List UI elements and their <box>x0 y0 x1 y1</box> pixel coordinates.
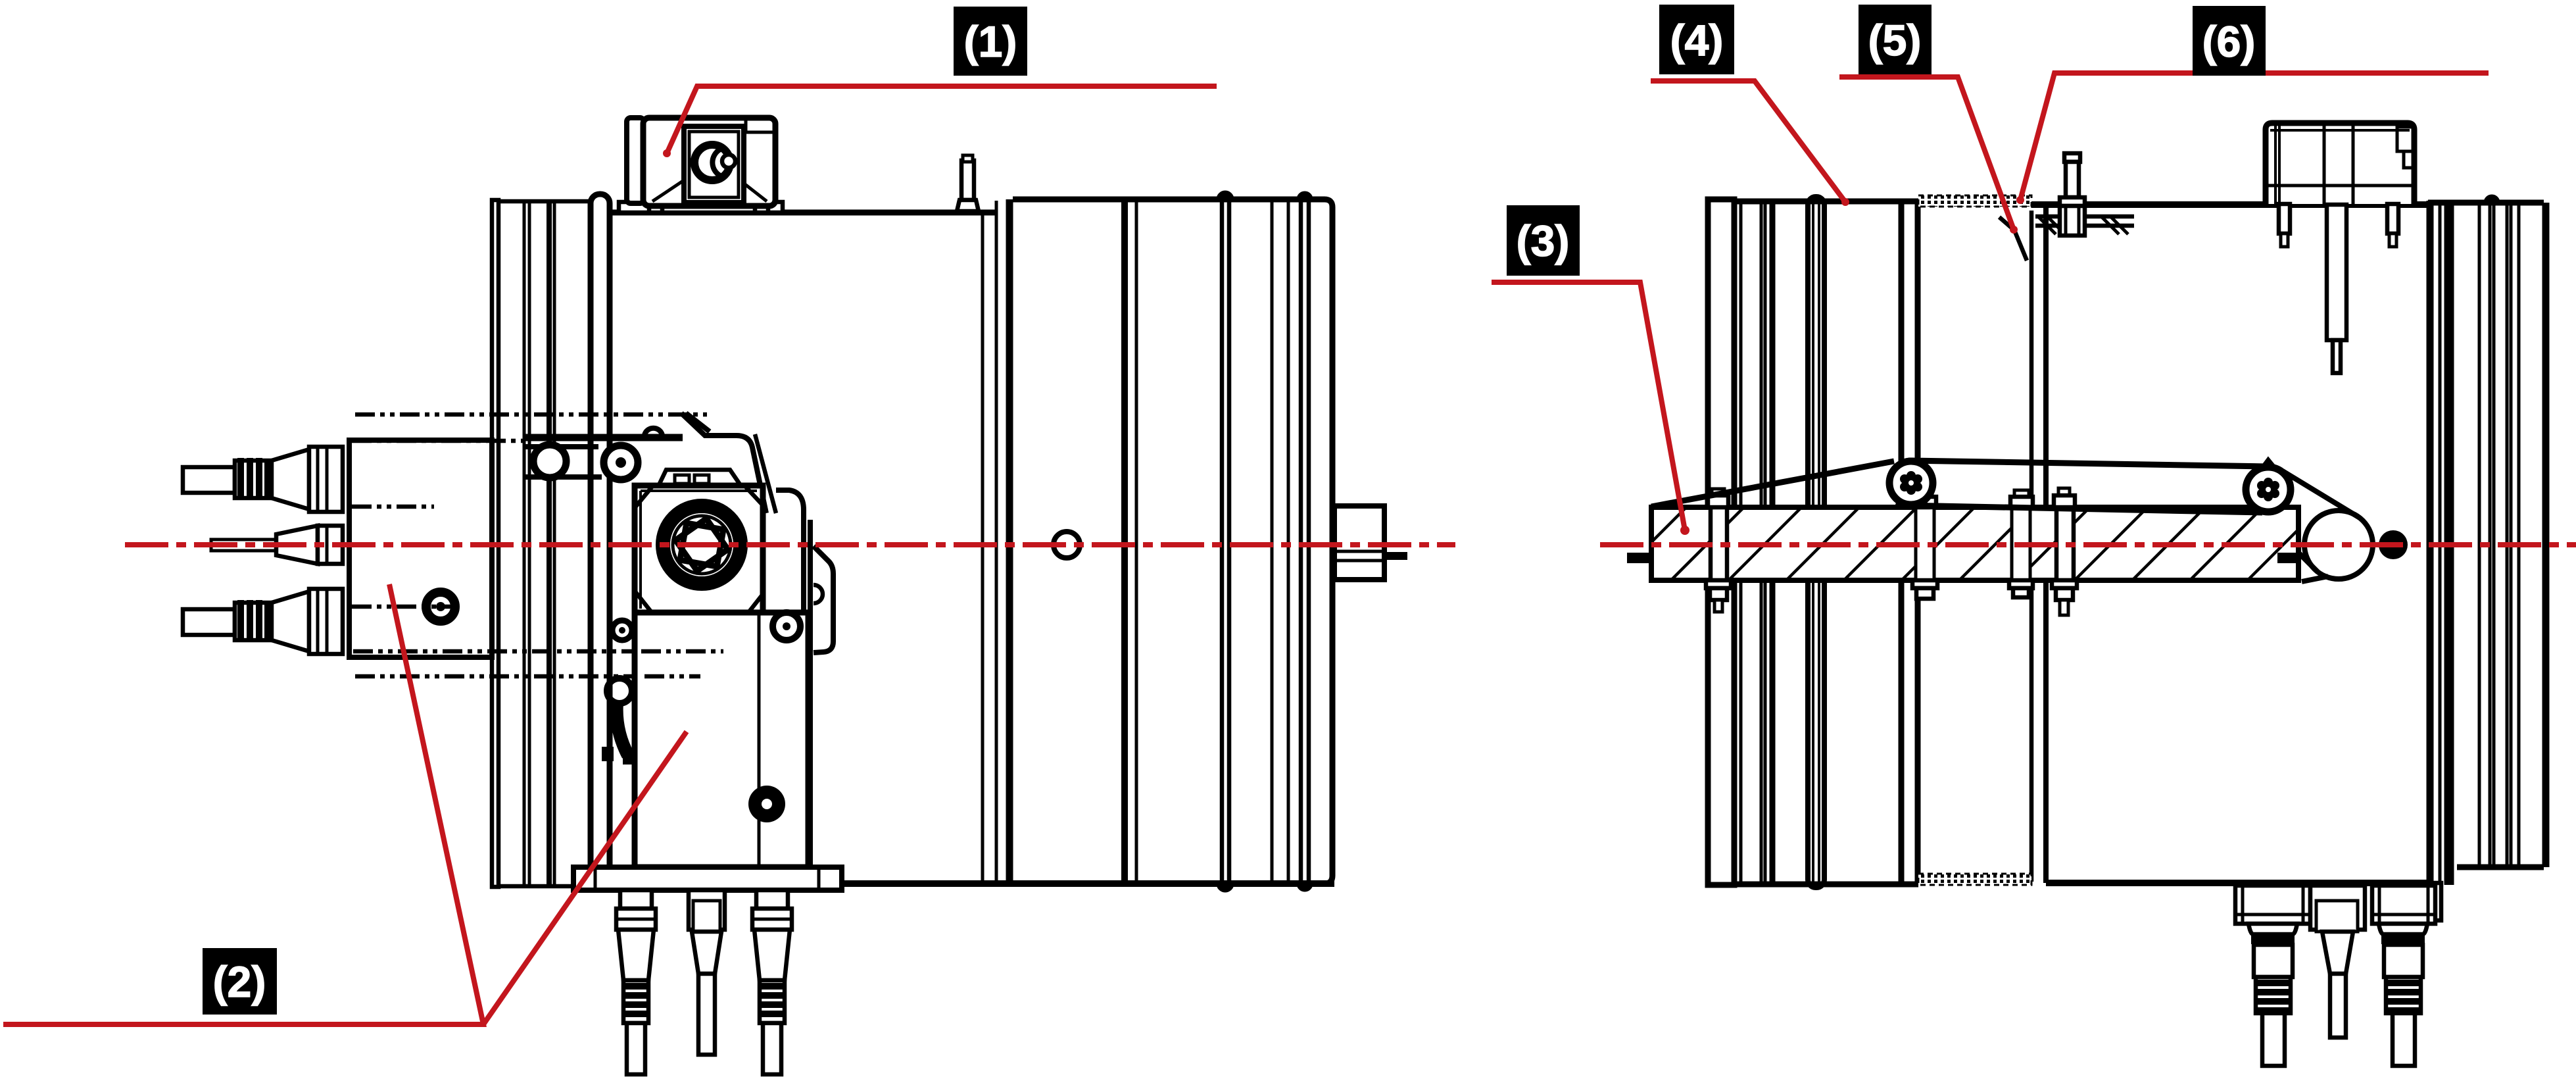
output shaft stub <box>1334 506 1407 580</box>
valve bottom flange <box>573 867 842 890</box>
body top and bottom edges (right view) <box>2031 205 2427 883</box>
label (3) box <box>1507 205 1580 276</box>
svg-text:(4): (4) <box>1670 16 1724 64</box>
bottom connector right <box>752 890 792 1074</box>
leader (4) <box>1651 81 1849 206</box>
swing arm belt <box>1651 461 2274 513</box>
bottom connector middle <box>689 890 725 1055</box>
bolt B1 <box>1706 489 1731 612</box>
valve lower housing <box>602 613 808 867</box>
left plug connector middle (pin) <box>211 526 343 564</box>
right pulley <box>2246 467 2291 512</box>
clamp section line near (5) <box>1999 217 2027 261</box>
centerline left view <box>125 542 1455 547</box>
label (4) box <box>1659 5 1734 74</box>
seal band bottom <box>1918 874 2031 885</box>
label (5) box <box>1859 5 1932 74</box>
svg-text:(2): (2) <box>213 957 266 1006</box>
bottom connector left <box>616 890 656 1074</box>
clamp bolt <box>2060 153 2085 236</box>
left pulley <box>1889 461 1933 505</box>
hatched clamp shaft bar <box>1627 507 2298 580</box>
clamp bracket with hatch near (6) <box>2035 216 2134 234</box>
end pivot dot <box>2379 530 2408 559</box>
bottom connector right-view right <box>2372 886 2435 1066</box>
right ring/rib section of left view <box>1013 193 1332 890</box>
right rib stack (right view) <box>2428 197 2546 920</box>
left plug connector bottom <box>183 589 343 654</box>
bolt columns through bar <box>1711 507 2074 580</box>
bolt B3 nut <box>2009 490 2033 597</box>
leader (1) <box>663 86 1217 157</box>
cable gland manifold (left side) <box>349 414 720 676</box>
bolt B4 <box>2052 488 2077 615</box>
solenoid connector (1) on top <box>619 118 783 213</box>
left plug connector top <box>183 447 343 512</box>
valve block with torx screw <box>612 486 763 640</box>
swing arm cap cylinder <box>2254 471 2373 582</box>
left heat-sink rib plate <box>492 194 610 890</box>
label (2) box <box>203 948 277 1015</box>
clamp bar above valve block <box>523 413 804 513</box>
centerline right view <box>1600 542 2576 547</box>
label (1) box <box>954 7 1027 76</box>
svg-text:(1): (1) <box>964 17 1017 66</box>
leader (6) <box>2016 73 2489 204</box>
left rib plate of right view <box>1708 197 1918 888</box>
breather hole <box>1054 532 1080 558</box>
valve block top cap <box>658 470 741 486</box>
middle ring boundaries <box>1901 204 2046 883</box>
bolt B2 nut <box>1912 490 1937 599</box>
label (6) box <box>2193 6 2266 76</box>
top connector (right view) <box>2266 123 2414 373</box>
bottom connector right-view left <box>2235 886 2310 1066</box>
leader (2) <box>3 584 687 1024</box>
leader (3) <box>1492 282 1689 535</box>
right bracket ear <box>804 510 833 867</box>
svg-text:(5): (5) <box>1868 16 1922 64</box>
motor front face (left view) <box>610 199 1334 884</box>
svg-text:(3): (3) <box>1517 216 1570 265</box>
leader (5) <box>1839 77 2018 234</box>
top pin on body <box>957 155 979 211</box>
svg-text:(6): (6) <box>2202 17 2256 66</box>
bottom connector right-view middle <box>2310 886 2365 1038</box>
seal band top <box>1918 195 2031 207</box>
